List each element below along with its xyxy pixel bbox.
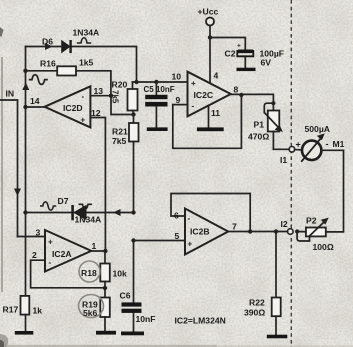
svg-text:470Ω: 470Ω (248, 132, 269, 142)
wire pin4 supply (209, 38, 211, 83)
wire pin2 (31, 260, 105, 288)
node IC2B fb (248, 229, 252, 233)
ground for IC2C (197, 127, 224, 131)
dashed separator line (290, 0, 292, 347)
ground for C5 (147, 127, 168, 131)
svg-text:R17: R17 (3, 305, 19, 315)
resistor R17 (21, 296, 30, 331)
node R22 top (274, 229, 278, 233)
node R18 R19 (103, 286, 107, 290)
svg-text:I2: I2 (281, 219, 288, 229)
arrow up on bus (22, 83, 29, 91)
svg-text:10k: 10k (113, 269, 128, 279)
diode D7 (73, 205, 86, 220)
svg-text:8: 8 (234, 85, 239, 95)
svg-text:-: - (82, 92, 85, 101)
wire pin11 ground stub (208, 106, 210, 128)
wire pin13 (90, 95, 111, 97)
svg-text:-: - (188, 214, 191, 223)
svg-text:7: 7 (232, 222, 237, 232)
resistor R16 (26, 66, 111, 95)
svg-text:4: 4 (214, 71, 219, 81)
waveform sine left of D7 (40, 202, 56, 210)
node D6 top rail (134, 80, 138, 84)
capacitor C6 (122, 241, 142, 332)
op-amp U IC2B (185, 209, 228, 255)
capacitor C5 (145, 82, 167, 128)
svg-text:P1: P1 (254, 120, 265, 130)
node D7 left (23, 210, 27, 214)
svg-text:R20: R20 (112, 80, 128, 90)
svg-text:1: 1 (92, 241, 97, 251)
arrow down on IN wire (14, 189, 21, 197)
svg-text:1k5: 1k5 (79, 58, 94, 68)
svg-text:+: + (237, 43, 241, 50)
svg-text:6V: 6V (261, 58, 272, 68)
node pin5 (131, 238, 135, 242)
wire D7 row (26, 212, 134, 214)
ground for R17 (15, 331, 34, 335)
svg-text:-: - (326, 139, 329, 149)
svg-text:500µA: 500µA (305, 124, 331, 134)
wire IC2C output (231, 94, 274, 110)
svg-text:IC2B: IC2B (190, 227, 210, 237)
node pin13 (109, 94, 113, 98)
svg-text:390Ω: 390Ω (244, 308, 265, 318)
svg-text:5k6: 5k6 (83, 308, 98, 318)
ground for C2 (237, 68, 256, 71)
node Ucc split (208, 35, 212, 39)
svg-text:10: 10 (172, 72, 182, 82)
resistor R21 (129, 115, 139, 213)
svg-text:-: - (49, 258, 52, 267)
resistor R18 (100, 251, 110, 298)
svg-text:2: 2 (32, 250, 37, 260)
waveform dip right of D7 (79, 204, 93, 209)
potentiometer P1 (264, 101, 283, 149)
op-amp U IC2D (45, 86, 91, 127)
node IC2C fb (239, 93, 243, 97)
wire left bus vertical (25, 47, 27, 297)
node IC2A out (103, 249, 107, 253)
wire to C2 (210, 38, 245, 50)
wire meter to P2 (321, 150, 343, 232)
wire pin14 (26, 106, 45, 108)
wire pin9 stub (173, 104, 188, 106)
svg-text:+: + (191, 79, 196, 88)
svg-text:M1: M1 (333, 139, 345, 149)
wire P1 to I1 (273, 148, 289, 150)
resistor R22 (272, 232, 281, 335)
svg-text:IC2C: IC2C (194, 90, 214, 100)
svg-text:+: + (296, 140, 301, 150)
meter M1 (301, 133, 325, 161)
svg-text:+: + (48, 238, 53, 247)
svg-text:+: + (188, 240, 193, 249)
wire pin9 feedback loop (173, 95, 242, 148)
node I1 (289, 147, 295, 153)
svg-text:11: 11 (211, 108, 220, 118)
svg-text:IN: IN (6, 89, 15, 99)
op-amp U IC2C (188, 72, 231, 117)
ground for R22 (267, 335, 288, 339)
wire pin13 to divider (111, 96, 134, 115)
svg-text:R18: R18 (81, 268, 97, 278)
svg-text:D7: D7 (58, 196, 69, 206)
paper smudge bottom-left corner (0, 334, 8, 347)
wire IN input (1, 100, 18, 237)
paper corner tick (0, 27, 4, 37)
svg-text:IC2A: IC2A (52, 249, 72, 259)
svg-text:12: 12 (91, 108, 101, 118)
annotation circle R19 (79, 295, 104, 318)
paper left edge line (1, 57, 3, 292)
arrow right on D6 wire (45, 43, 53, 50)
ground for R19 (96, 331, 116, 335)
waveform sine below R16 (29, 75, 48, 85)
svg-text:9: 9 (176, 95, 181, 105)
wire pin12 (90, 118, 105, 252)
resistor R20 (128, 82, 138, 115)
ground for C6 (121, 332, 144, 336)
annotation circle R18 (79, 261, 100, 282)
paper shadow bottom edge (5, 345, 217, 347)
node pin14 (23, 105, 27, 109)
wire D6 top loop (26, 47, 137, 83)
svg-text:-: - (192, 102, 195, 111)
node I2 (288, 229, 294, 235)
wire pin10 rail (133, 81, 188, 83)
arrow left on D7 wire (113, 209, 121, 216)
svg-text:5: 5 (175, 231, 180, 241)
svg-text:C2: C2 (225, 49, 236, 59)
svg-text:D6: D6 (42, 37, 53, 47)
wire pin5 (134, 240, 186, 242)
svg-text:+Ucc: +Ucc (198, 7, 219, 17)
node R16 tap (23, 69, 27, 73)
svg-text:IC2=LM324N: IC2=LM324N (175, 316, 226, 326)
node C5 tap (154, 80, 158, 84)
svg-text:1N34A: 1N34A (75, 215, 102, 225)
svg-text:10nF: 10nF (136, 314, 156, 324)
svg-text:C6: C6 (120, 291, 131, 301)
op-amp U IC2A (45, 230, 91, 272)
node D7 right (131, 210, 135, 214)
wire I1 to meter (295, 149, 302, 151)
svg-text:R16: R16 (40, 59, 56, 69)
node R20 R21 (131, 112, 135, 116)
wire IN to pin3 (18, 236, 46, 238)
wire IC2A output (91, 250, 105, 252)
svg-text:100Ω: 100Ω (313, 242, 334, 252)
svg-text:1k: 1k (33, 306, 43, 316)
svg-text:6: 6 (174, 211, 179, 221)
svg-text:IC2D: IC2D (63, 103, 83, 113)
power +Ucc terminal (206, 18, 214, 26)
svg-text:13: 13 (94, 86, 104, 96)
svg-text:R21: R21 (112, 127, 128, 137)
svg-text:7k5: 7k5 (112, 136, 127, 146)
wire IC2B output (228, 231, 287, 233)
capacitor C2 electrolytic (237, 43, 253, 68)
potentiometer P2 (295, 218, 329, 241)
svg-text:I1: I1 (280, 155, 287, 165)
diode D6 (62, 40, 71, 53)
resistor R19 (100, 298, 110, 331)
svg-text:14: 14 (30, 96, 40, 106)
svg-text:3: 3 (36, 228, 41, 238)
svg-text:P2: P2 (306, 216, 317, 226)
svg-text:R22: R22 (249, 298, 265, 308)
svg-text:1N34A: 1N34A (73, 28, 100, 38)
svg-text:+: + (81, 116, 86, 125)
waveform hump after D6 (77, 38, 91, 43)
wire pin6 feedback box (171, 194, 250, 232)
svg-text:C5 10nF: C5 10nF (144, 85, 175, 94)
